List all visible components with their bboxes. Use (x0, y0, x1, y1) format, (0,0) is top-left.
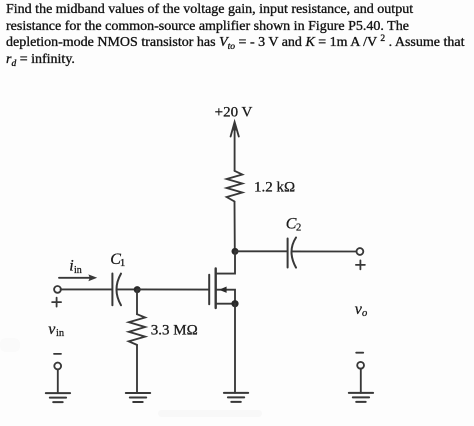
wire input to C1 (61, 288, 112, 290)
svg-text:in: in (56, 328, 65, 339)
label vo (355, 301, 367, 319)
node drain dot (232, 248, 239, 255)
resistor R2 3.3M zigzag (129, 314, 145, 345)
wire gate node to transistor gate (137, 288, 208, 290)
svg-text:in: in (74, 265, 82, 276)
svg-text:2: 2 (296, 223, 301, 234)
transistor Q1 body arrow (219, 287, 227, 293)
output minus sign (356, 352, 363, 354)
wire drain node to C2 (235, 250, 287, 252)
faint scan smudge left (0, 338, 20, 352)
label C1 (110, 251, 125, 269)
wire C2 to output terminal (292, 250, 357, 252)
wire gate node down to R2 (136, 289, 138, 314)
transistor Q1 source lead (217, 303, 235, 305)
wire resistor to drain node (234, 202, 236, 252)
resistor R1 1.2k zigzag (227, 171, 243, 202)
ground output (349, 393, 373, 402)
node source dot (231, 300, 238, 307)
output terminal top (357, 248, 364, 255)
node gate dot (134, 286, 141, 293)
capacitor C2 (287, 239, 289, 268)
svg-text:+20 V: +20 V (215, 105, 253, 121)
ground input (46, 393, 70, 402)
svg-text:1.2 kΩ: 1.2 kΩ (254, 180, 295, 196)
label C2 (286, 215, 301, 233)
transistor Q1 channel bar (214, 269, 216, 309)
input arrow i_in (59, 277, 92, 279)
wire R2 to ground (136, 345, 138, 393)
wire source to ground (234, 304, 236, 393)
input plus sign (52, 298, 61, 307)
wire C1 to gate node (117, 288, 137, 290)
output terminal bottom (357, 362, 364, 369)
transistor Q1 gate bar (208, 275, 210, 305)
svg-text:o: o (362, 308, 367, 319)
label v_in (48, 321, 65, 339)
label 1.2 kOhm (254, 180, 295, 196)
svg-text:3.3 MΩ: 3.3 MΩ (151, 323, 198, 339)
supply +20V label (215, 105, 253, 121)
faint scan smudge bottom (158, 410, 262, 417)
transistor Q1 drain lead (217, 251, 236, 273)
input terminal top (54, 286, 61, 293)
input terminal bottom (54, 363, 61, 370)
capacitor C1 (111, 274, 113, 306)
supply arrow (231, 122, 239, 171)
transistor Q1 body lead (217, 290, 235, 304)
wire input bottom to ground (57, 369, 59, 393)
wire output bottom to ground (360, 369, 362, 393)
svg-text:1: 1 (120, 258, 125, 269)
label i_in (69, 257, 81, 276)
ground R2 (126, 393, 150, 402)
input minus sign (54, 353, 61, 355)
output plus sign (356, 260, 365, 269)
label 3.3 MOhm (151, 323, 198, 339)
ground source (224, 393, 248, 402)
